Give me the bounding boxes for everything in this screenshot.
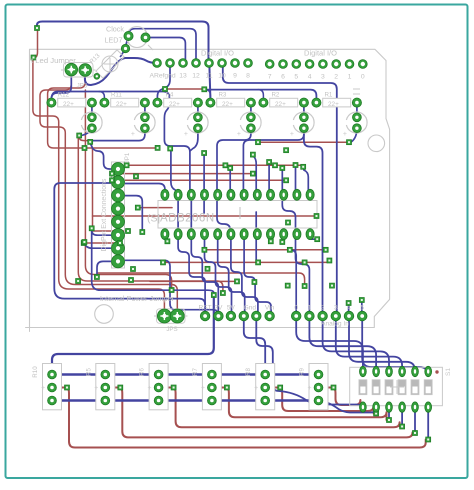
svg-text:22+: 22+ (116, 101, 127, 108)
svg-text:Digital I/O: Digital I/O (304, 49, 337, 58)
svg-text:JP3: JP3 (77, 83, 88, 90)
svg-text:R7: R7 (192, 367, 199, 375)
svg-text:+: + (343, 131, 347, 138)
svg-text:R2: R2 (271, 92, 279, 99)
svg-text:5: 5 (360, 305, 364, 312)
svg-text:1: 1 (348, 74, 352, 81)
svg-text:+: + (148, 385, 152, 392)
svg-text:+: + (131, 131, 135, 138)
svg-text:R5: R5 (85, 367, 92, 375)
svg-text:+: + (184, 131, 188, 138)
svg-text:Gnd: Gnd (244, 305, 257, 312)
svg-text:Clock: Clock (106, 25, 124, 34)
svg-text:2: 2 (334, 74, 338, 81)
svg-text:+: + (94, 385, 98, 392)
svg-text:DigPot Ext Connections: DigPot Ext Connections (101, 178, 108, 251)
svg-text:8: 8 (246, 73, 250, 80)
svg-text:JPS: JPS (166, 326, 177, 333)
svg-text:22+: 22+ (275, 101, 286, 108)
svg-text:9: 9 (233, 73, 237, 80)
svg-text:3: 3 (321, 74, 325, 81)
svg-text:22+: 22+ (169, 101, 180, 108)
svg-text:R9: R9 (299, 367, 306, 375)
svg-text:22+: 22+ (222, 101, 233, 108)
svg-text:+: + (254, 385, 258, 392)
svg-text:S1: S1 (445, 368, 452, 376)
svg-text:22+: 22+ (63, 101, 74, 108)
svg-text:3V: 3V (214, 305, 223, 312)
svg-text:ADB206N: ADB206N (160, 213, 215, 225)
svg-text:JP1: JP1 (124, 152, 131, 163)
svg-text:+: + (237, 131, 241, 138)
svg-text:6: 6 (281, 74, 285, 81)
svg-text:3: 3 (334, 305, 338, 312)
svg-text:Analog In: Analog In (321, 321, 349, 328)
svg-text:2: 2 (321, 305, 325, 312)
svg-text:7: 7 (268, 74, 272, 81)
svg-text:R1: R1 (324, 92, 332, 99)
svg-text:Vin: Vin (265, 305, 275, 312)
svg-text:0: 0 (361, 74, 365, 81)
svg-text:1: 1 (308, 305, 312, 312)
svg-text:R10: R10 (32, 366, 39, 378)
svg-text:Digital I/O: Digital I/O (201, 49, 234, 58)
svg-text:+: + (41, 385, 45, 392)
svg-text:5V: 5V (227, 305, 236, 312)
svg-text:22+: 22+ (328, 101, 339, 108)
svg-text:R11: R11 (111, 92, 122, 99)
svg-text:ARef: ARef (149, 73, 164, 80)
svg-text:LED7: LED7 (105, 36, 123, 45)
svg-text:RST: RST (199, 305, 212, 312)
svg-text:R12: R12 (58, 92, 70, 99)
svg-text:(S|: (S| (147, 213, 160, 225)
svg-text:R3: R3 (218, 92, 226, 99)
svg-text:R6: R6 (139, 367, 146, 375)
svg-text:11: 11 (205, 73, 212, 80)
svg-text:5: 5 (294, 74, 298, 81)
svg-text:4: 4 (308, 74, 312, 81)
svg-text:0: 0 (294, 305, 298, 312)
svg-text:gnd: gnd (164, 73, 176, 80)
svg-text:13: 13 (179, 73, 187, 80)
svg-text:+: + (290, 131, 294, 138)
svg-text:Internal Power Jumper: Internal Power Jumper (100, 294, 175, 303)
svg-text:10: 10 (218, 73, 226, 80)
svg-text:R8: R8 (245, 367, 252, 375)
svg-text:R4: R4 (165, 92, 173, 99)
svg-text:+: + (307, 385, 311, 392)
svg-text:+: + (201, 385, 205, 392)
svg-text:12: 12 (192, 73, 200, 80)
